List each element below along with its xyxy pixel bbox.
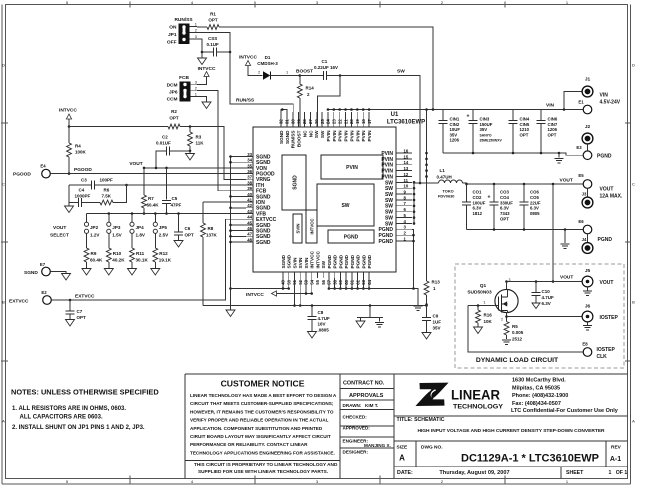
JP1 pin stubs and numbers [190, 26, 198, 28]
svg-text:L1: L1 [440, 168, 446, 173]
ground below R11 [131, 262, 133, 269]
svg-text:CHECKED:: CHECKED: [343, 415, 368, 420]
svg-text:BOOST: BOOST [296, 69, 313, 75]
svg-text:DRAWN:: DRAWN: [343, 403, 362, 408]
svg-text:35ME150WXV: 35ME150WXV [480, 139, 503, 143]
svg-text:INTVCC: INTVCC [239, 55, 257, 61]
svg-text:55: 55 [315, 279, 320, 284]
svg-text:48: 48 [247, 237, 252, 242]
svg-text:PVIN: PVIN [367, 130, 372, 142]
svg-text:CIN6: CIN6 [548, 117, 558, 122]
svg-text:PVIN: PVIN [326, 130, 331, 142]
svg-text:LTC3610EWP: LTC3610EWP [387, 120, 425, 126]
svg-text:CO1: CO1 [473, 190, 482, 195]
svg-text:14: 14 [404, 160, 409, 165]
svg-text:IOSTEP: IOSTEP [597, 347, 616, 353]
svg-text:RUN/SS: RUN/SS [174, 17, 193, 23]
svg-text:28: 28 [302, 119, 307, 124]
ground below R3 [189, 151, 191, 154]
svg-text:1.5V: 1.5V [112, 233, 122, 238]
wire VOUT rail [463, 183, 584, 184]
svg-text:INTVCC: INTVCC [59, 108, 77, 114]
svg-text:E7: E7 [40, 262, 46, 267]
svg-text:60.4K: 60.4K [90, 258, 103, 263]
wire JP1 pin2 to CSS / RUN/SS node [197, 33, 230, 53]
svg-text:1000PF: 1000PF [75, 194, 91, 199]
svg-text:40.2K: 40.2K [112, 258, 125, 263]
svg-text:DCM: DCM [167, 82, 178, 88]
svg-text:CCM: CCM [167, 96, 178, 102]
svg-text:Milpitas, CA 95035: Milpitas, CA 95035 [512, 385, 560, 391]
svg-text:SW: SW [320, 130, 325, 138]
svg-text:SVIN: SVIN [304, 257, 309, 269]
jumper JP2 1.2V [86, 214, 88, 223]
svg-text:0.005: 0.005 [512, 330, 524, 335]
svg-text:J5: J5 [585, 268, 591, 274]
svg-text:32: 32 [279, 119, 284, 124]
svg-text:E8: E8 [582, 341, 588, 346]
svg-text:SVIN: SVIN [298, 257, 303, 269]
svg-text:OF: OF [616, 470, 623, 476]
svg-text:PERFORMANCE OR RELIABILITY. C: PERFORMANCE OR RELIABILITY. CONTACT LINE… [190, 442, 308, 447]
svg-text:FDV0630: FDV0630 [438, 194, 454, 199]
ground below CSS [201, 52, 203, 58]
svg-text:3: 3 [195, 79, 197, 84]
svg-text:IOSTEP: IOSTEP [600, 315, 619, 321]
ground below C3/C4 node [68, 203, 70, 207]
svg-text:BOOST: BOOST [297, 130, 302, 147]
svg-text:10: 10 [404, 184, 409, 189]
svg-text:40: 40 [247, 192, 252, 197]
svg-text:R10: R10 [113, 251, 122, 256]
svg-text:CONTRACT NO.: CONTRACT NO. [343, 381, 385, 387]
svg-text:CIN7: CIN7 [548, 122, 558, 127]
svg-text:10K: 10K [484, 319, 493, 324]
wire bottom SGND pins to trunk [282, 278, 284, 289]
svg-text:JP5: JP5 [159, 225, 168, 230]
svg-text:41: 41 [247, 198, 252, 203]
svg-text:HIGH INPUT VOLTAGE AND HIGH CU: HIGH INPUT VOLTAGE AND HIGH CURRENT DENS… [417, 428, 605, 434]
svg-text:MANJING X.: MANJING X. [364, 443, 391, 448]
svg-text:C1: C1 [322, 59, 328, 64]
svg-text:39: 39 [247, 186, 252, 191]
svg-text:PVIN: PVIN [344, 130, 349, 142]
svg-text:3: 3 [195, 34, 197, 39]
svg-text:OPT: OPT [77, 315, 87, 320]
svg-text:OPT: OPT [548, 132, 557, 137]
svg-text:PGND: PGND [367, 254, 372, 268]
ground below R10 [108, 262, 110, 269]
svg-text:CMDSH-3: CMDSH-3 [257, 61, 278, 66]
svg-text:150UF: 150UF [480, 122, 493, 127]
wire RUN/SS node down to pin 30 [230, 52, 293, 127]
jumper JP4 1.8V [131, 214, 133, 223]
svg-text:2: 2 [501, 318, 503, 322]
svg-text:0.1UF: 0.1UF [207, 42, 220, 47]
svg-text:CSS: CSS [208, 36, 217, 41]
resistor R9 60.4K [86, 233, 88, 248]
svg-text:20: 20 [349, 119, 354, 124]
svg-text:2. INSTALL SHUNT ON JP1 PINS: 2. INSTALL SHUNT ON JP1 PINS 1 AND 2, JP… [12, 425, 145, 431]
svg-text:PGOOD: PGOOD [13, 172, 31, 178]
svg-text:.0805: .0805 [318, 327, 330, 332]
svg-text:PVIN: PVIN [338, 130, 343, 142]
svg-text:13: 13 [404, 166, 409, 171]
svg-text:47: 47 [247, 232, 252, 237]
svg-text:2: 2 [258, 70, 260, 75]
svg-text:SGND: SGND [281, 254, 286, 268]
capacitor CIN3 input bank [472, 110, 474, 121]
svg-text:OPT: OPT [208, 18, 218, 23]
svg-text:4.5V-24V: 4.5V-24V [600, 100, 621, 106]
svg-text:EXTVCC: EXTVCC [9, 299, 29, 305]
svg-text:VOUT: VOUT [600, 187, 614, 193]
ground below R12 [154, 262, 156, 269]
wire VFB bus to pin 43 [87, 213, 247, 215]
capacitor CO6 output bank [523, 184, 525, 202]
op-amp U1 LTC3610EWP main IC body [253, 127, 396, 272]
svg-text:45: 45 [247, 220, 252, 225]
svg-text:VERIFY PROPER AND RELIABLE OPE: VERIFY PROPER AND RELIABLE OPERATION IN … [190, 418, 329, 423]
svg-text:4.7UF: 4.7UF [318, 316, 331, 321]
wire VOUT rail down into load circuit [552, 184, 554, 282]
resistor R12 19.1K [154, 233, 156, 248]
svg-text:D1: D1 [265, 55, 271, 60]
svg-text:10UF: 10UF [450, 127, 461, 132]
svg-text:43: 43 [247, 209, 252, 214]
svg-text:CO2: CO2 [473, 195, 482, 200]
svg-text:38: 38 [247, 180, 252, 185]
svg-text:OPT: OPT [169, 116, 179, 121]
capacitor CO1 output bank [466, 184, 468, 202]
ground below R9 [86, 262, 88, 269]
wire SVIN pins down to SVIN bus [294, 278, 296, 306]
svg-text:JP6: JP6 [169, 89, 178, 95]
capacitor CIN4 input bank [512, 110, 514, 121]
U1 left pins 33-48 stubs, numbers and labels [246, 156, 253, 158]
svg-text:SW: SW [397, 69, 405, 75]
svg-text:25: 25 [320, 119, 325, 124]
svg-text:VOUT: VOUT [560, 275, 573, 281]
svg-text:100K: 100K [75, 150, 87, 155]
svg-text:ALL CAPACITORS ARE 0603.: ALL CAPACITORS ARE 0603. [20, 414, 103, 420]
svg-text:OPT: OPT [500, 217, 509, 222]
svg-text:ON: ON [169, 25, 177, 31]
svg-text:SUPPLIED FOR USE WITH LINEAR T: SUPPLIED FOR USE WITH LINEAR TECHNOLOGY … [198, 469, 328, 474]
svg-text:R8: R8 [208, 226, 214, 231]
svg-text:D: D [632, 63, 635, 68]
svg-text:JP4: JP4 [136, 225, 145, 230]
svg-text:30.1K: 30.1K [136, 258, 149, 263]
svg-text:JP3: JP3 [112, 225, 121, 230]
svg-text:E5: E5 [578, 173, 584, 178]
U1 internal PGND region [328, 230, 374, 243]
svg-text:29: 29 [296, 119, 301, 124]
SVIN bus wire [203, 305, 427, 307]
spare ground pair [369, 306, 371, 318]
svg-text:PGND: PGND [344, 235, 359, 241]
svg-text:JP2: JP2 [90, 225, 99, 230]
svg-text:E2: E2 [41, 290, 47, 295]
svg-text:D: D [2, 63, 5, 68]
svg-text:1: 1 [609, 470, 612, 476]
svg-text:PVIN: PVIN [332, 130, 337, 142]
svg-text:CO6: CO6 [530, 190, 539, 195]
svg-text:E4: E4 [40, 164, 46, 169]
svg-text:TECHNOLOGY: TECHNOLOGY [453, 404, 504, 411]
svg-text:PGND: PGND [598, 237, 613, 243]
svg-text:DC1129A-1 * LTC3610EWP: DC1129A-1 * LTC3610EWP [461, 453, 599, 465]
svg-text:35V: 35V [450, 132, 458, 137]
svg-text:RUN/SS: RUN/SS [291, 131, 296, 149]
svg-text:SGND: SGND [293, 175, 299, 190]
svg-text:0.01UF: 0.01UF [156, 141, 171, 146]
svg-text:1206: 1206 [450, 138, 460, 143]
resistor R10 40.2K [108, 233, 110, 248]
svg-text:Phone: (408)432-1900: Phone: (408)432-1900 [512, 393, 568, 399]
svg-text:KIM T.: KIM T. [365, 403, 378, 408]
svg-text:6.3V: 6.3V [500, 206, 509, 211]
svg-text:A: A [2, 419, 5, 424]
jumper JP3 1.5V [108, 214, 110, 223]
CO ground bus [467, 229, 584, 231]
svg-text:CO3: CO3 [500, 190, 509, 195]
svg-text:OPT: OPT [185, 233, 195, 238]
svg-text:B: B [632, 300, 635, 305]
wire JP1 pin1 to R1 to VIN rail [197, 26, 207, 28]
svg-text:CLK: CLK [597, 354, 608, 360]
svg-text:330UF: 330UF [500, 200, 513, 205]
svg-text:CUSTOMER NOTICE: CUSTOMER NOTICE [221, 379, 305, 389]
svg-text:C7: C7 [77, 309, 83, 314]
svg-text:NC: NC [308, 130, 313, 137]
Q1 source node 2 and wire to J6 [506, 312, 508, 321]
svg-text:+: + [467, 114, 470, 120]
svg-text:REV: REV [611, 445, 622, 451]
svg-text:SHEET: SHEET [566, 470, 584, 476]
svg-text:JP1: JP1 [168, 32, 177, 38]
wire EXTVCC to pin 44 [51, 219, 246, 300]
ground at SGND trunk bottom [226, 310, 235, 317]
capacitor CIN1 input bank [442, 110, 444, 121]
svg-text:INTVCC: INTVCC [315, 250, 320, 268]
svg-text:C9: C9 [433, 314, 439, 319]
svg-text:C8: C8 [318, 310, 324, 315]
svg-text:SW: SW [321, 260, 326, 268]
svg-text:19.1K: 19.1K [159, 258, 172, 263]
svg-text:C: C [632, 182, 635, 187]
wire tie between top SGND pins 32 and 31 [281, 110, 287, 113]
wire SW right pins to L1 [413, 183, 415, 223]
svg-text:J2: J2 [585, 124, 591, 130]
svg-text:26: 26 [314, 119, 319, 124]
svg-text:1.8V: 1.8V [136, 233, 146, 238]
svg-text:1. ALL RESISTORS ARE IN OHMS,: 1. ALL RESISTORS ARE IN OHMS, 0603. [12, 406, 126, 412]
svg-text:34: 34 [247, 158, 252, 163]
svg-text:16V: 16V [318, 322, 326, 327]
svg-text:SGND: SGND [287, 254, 292, 268]
svg-text:DESIGNER:: DESIGNER: [343, 450, 369, 455]
svg-text:SELECT: SELECT [50, 233, 69, 239]
svg-text:1: 1 [624, 470, 627, 476]
svg-text:SW: SW [314, 130, 319, 138]
U1 internal INTVCC region [306, 210, 317, 243]
svg-text:INTVCC: INTVCC [198, 66, 216, 72]
svg-text:24: 24 [326, 119, 331, 124]
svg-text:R3: R3 [196, 135, 202, 140]
svg-text:TECHNOLOGY APPLICATIONS ENGINE: TECHNOLOGY APPLICATIONS ENGINEERING FOR … [190, 450, 335, 455]
U1 top pins 32-17 stubs, numbers and labels [280, 112, 282, 127]
svg-text:1.2V: 1.2V [90, 233, 100, 238]
svg-text:VOUT: VOUT [53, 225, 66, 231]
svg-text:SGND: SGND [285, 130, 290, 144]
svg-text:19: 19 [355, 119, 360, 124]
wire JP6 pin2 down to FCB pin 39 [197, 90, 246, 190]
svg-text:RUN/SS: RUN/SS [236, 98, 255, 104]
svg-text:7.5K: 7.5K [102, 194, 112, 199]
svg-text:21: 21 [343, 119, 348, 124]
svg-text:C: C [2, 182, 5, 187]
wire E8 to Q1 gate [468, 306, 583, 353]
dynamic load circuit dashed box [455, 264, 624, 368]
svg-text:LINEAR TECHNOLOGY HAS MADE A B: LINEAR TECHNOLOGY HAS MADE A BEST EFFORT… [190, 393, 337, 398]
svg-text:APPLICATION. COMPONENT SUBSTI: APPLICATION. COMPONENT SUBSTITUTION AND … [190, 426, 323, 431]
svg-text:12A MAX.: 12A MAX. [600, 194, 623, 200]
svg-text:Fax: (408)434-0507: Fax: (408)434-0507 [512, 401, 561, 407]
svg-text:17: 17 [367, 119, 372, 124]
svg-text:CIN2: CIN2 [450, 122, 460, 127]
svg-text:J1: J1 [585, 77, 591, 83]
Linear Technology logo [420, 383, 449, 398]
svg-text:SGND: SGND [24, 270, 38, 276]
svg-text:35V: 35V [480, 127, 488, 132]
svg-text:LTC Confidential-For Customer: LTC Confidential-For Customer Use Only [511, 408, 619, 414]
svg-text:4.7UF: 4.7UF [542, 295, 555, 300]
svg-text:INTVCC: INTVCC [246, 292, 264, 298]
svg-text:R1: R1 [210, 12, 216, 17]
title block outline [185, 373, 628, 375]
svg-text:22: 22 [337, 119, 342, 124]
svg-text:R12: R12 [159, 251, 168, 256]
svg-text:PGND: PGND [356, 254, 361, 268]
svg-text:NOTES: UNLESS OTHERWISE SPECI: NOTES: UNLESS OTHERWISE SPECIFIED [11, 388, 159, 397]
svg-text:R4: R4 [75, 144, 81, 149]
svg-text:R6: R6 [104, 188, 110, 193]
svg-text:CIRUIT BOARD LAYOUT MAY SIGNIF: CIRUIT BOARD LAYOUT MAY SIGNIFICANTLY AF… [190, 434, 331, 439]
svg-text:PGND: PGND [327, 254, 332, 268]
svg-text:31: 31 [285, 119, 290, 124]
svg-text:SW: SW [341, 203, 349, 209]
svg-text:DATE:: DATE: [397, 470, 413, 476]
svg-text:E6: E6 [578, 219, 584, 224]
svg-text:PVIN: PVIN [346, 165, 358, 171]
svg-text:PGND: PGND [597, 154, 612, 160]
svg-text:PGND: PGND [333, 254, 338, 268]
svg-text:SGND: SGND [256, 240, 271, 246]
svg-text:33: 33 [247, 152, 252, 157]
svg-text:PVIN: PVIN [349, 130, 354, 142]
svg-text:CIN1: CIN1 [450, 117, 460, 122]
svg-text:B: B [2, 300, 5, 305]
svg-text:HOWEVER, IT REMAINS THE CUSTOM: HOWEVER, IT REMAINS THE CUSTOMER'S RESPO… [190, 409, 334, 414]
svg-text:INTVCC: INTVCC [310, 219, 315, 235]
svg-text:100PF: 100PF [100, 178, 114, 183]
svg-text:2: 2 [195, 85, 197, 90]
svg-text:7343: 7343 [500, 211, 510, 216]
wire PGND bottom pins to PGND bus [328, 278, 330, 289]
svg-text:0.22UF 16V: 0.22UF 16V [314, 65, 338, 70]
svg-text:R13: R13 [432, 280, 441, 285]
CIN ground bus [443, 152, 559, 154]
wire VOUT node in load circuit [507, 281, 584, 283]
svg-text:137K: 137K [206, 233, 218, 238]
svg-text:SVIN: SVIN [296, 223, 301, 233]
svg-text:1: 1 [195, 92, 197, 97]
wire VIN rail [328, 109, 583, 111]
svg-text:R5: R5 [512, 324, 518, 329]
Q1 gate wire from node 1 [468, 305, 499, 307]
svg-text:THIS CIRCUIT IS PROPRIETARY TO: THIS CIRCUIT IS PROPRIETARY TO LINEAR TE… [194, 462, 338, 467]
svg-text:15: 15 [404, 154, 409, 159]
svg-text:1206: 1206 [548, 127, 558, 132]
svg-text:PGND: PGND [344, 254, 349, 268]
svg-text:SIZE: SIZE [397, 445, 408, 451]
ground from JP6 pin1 [197, 97, 207, 103]
svg-text:1630 McCarthy Blvd.: 1630 McCarthy Blvd. [512, 378, 566, 384]
svg-text:R11: R11 [136, 251, 145, 256]
svg-text:E1: E1 [578, 100, 584, 105]
svg-text:CO4: CO4 [500, 195, 509, 200]
svg-text:PGND: PGND [361, 254, 366, 268]
svg-text:CIRCUIT THAT MEETS CUSTOMER-SU: CIRCUIT THAT MEETS CUSTOMER-SUPPLIED SPE… [190, 401, 334, 406]
U1 internal PVIN region [321, 155, 383, 179]
U1 internal SGND region [282, 155, 306, 210]
capacitor CIN6 input bank [540, 110, 542, 121]
svg-text:DYNAMIC LOAD CIRCUIT: DYNAMIC LOAD CIRCUIT [476, 357, 559, 364]
svg-text:0.47UH: 0.47UH [437, 175, 452, 180]
svg-text:R14: R14 [306, 86, 315, 91]
svg-text:1210: 1210 [520, 127, 530, 132]
zone ticks and labels [129, 2, 131, 8]
svg-text:OFF: OFF [167, 40, 177, 46]
svg-text:R2: R2 [171, 109, 177, 114]
wire R2 to VRNG pin 37 [180, 127, 246, 180]
svg-text:SANYO: SANYO [480, 133, 492, 137]
svg-text:16: 16 [404, 148, 409, 153]
wire C1 right to SW pin 26 [317, 76, 340, 128]
svg-text:VOUT: VOUT [129, 161, 142, 167]
svg-text:SGND: SGND [279, 130, 284, 144]
svg-text:36: 36 [247, 169, 252, 174]
svg-text:A: A [399, 454, 405, 463]
svg-text:46: 46 [247, 226, 252, 231]
svg-text:C5: C5 [172, 196, 178, 201]
svg-text:APPROVALS: APPROVALS [349, 393, 384, 399]
svg-text:NC: NC [302, 130, 307, 137]
capacitor CO3 output bank [493, 184, 495, 202]
svg-text:23: 23 [332, 119, 337, 124]
svg-text:C3: C3 [81, 178, 87, 183]
U1 right pins 16-1 stubs, numbers and labels [396, 152, 412, 154]
svg-text:C4: C4 [79, 188, 85, 193]
svg-text:22UF: 22UF [530, 200, 541, 205]
svg-text:11: 11 [404, 178, 409, 183]
svg-text:TITLE: SCHEMATIC: TITLE: SCHEMATIC [397, 417, 445, 423]
svg-text:3: 3 [509, 278, 511, 282]
svg-text:27: 27 [308, 119, 313, 124]
svg-text:LINEAR: LINEAR [451, 388, 500, 403]
svg-text:VOUT: VOUT [560, 177, 573, 183]
